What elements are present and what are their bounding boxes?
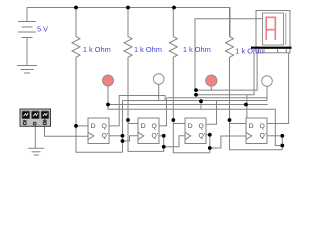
svg-text:1 k Ohm: 1 k Ohm <box>134 45 162 54</box>
svg-text:Q: Q <box>152 123 157 130</box>
svg-text:D: D <box>141 123 146 130</box>
svg-text:Q': Q' <box>102 133 109 140</box>
svg-text:Q: Q <box>260 123 265 130</box>
svg-text:D: D <box>91 123 96 130</box>
svg-text:1 k Ohm: 1 k Ohm <box>235 47 263 56</box>
svg-text:1 k Ohm: 1 k Ohm <box>183 45 211 54</box>
svg-text:5 V: 5 V <box>37 25 48 34</box>
svg-text:Q: Q <box>199 123 204 130</box>
svg-text:D: D <box>249 123 254 130</box>
svg-text:Q: Q <box>102 123 107 130</box>
svg-text:Q': Q' <box>152 133 159 140</box>
svg-text:1 k Ohm: 1 k Ohm <box>83 45 111 54</box>
svg-text:Q': Q' <box>260 133 267 140</box>
svg-text:D: D <box>188 123 193 130</box>
svg-text:Q': Q' <box>199 133 206 140</box>
